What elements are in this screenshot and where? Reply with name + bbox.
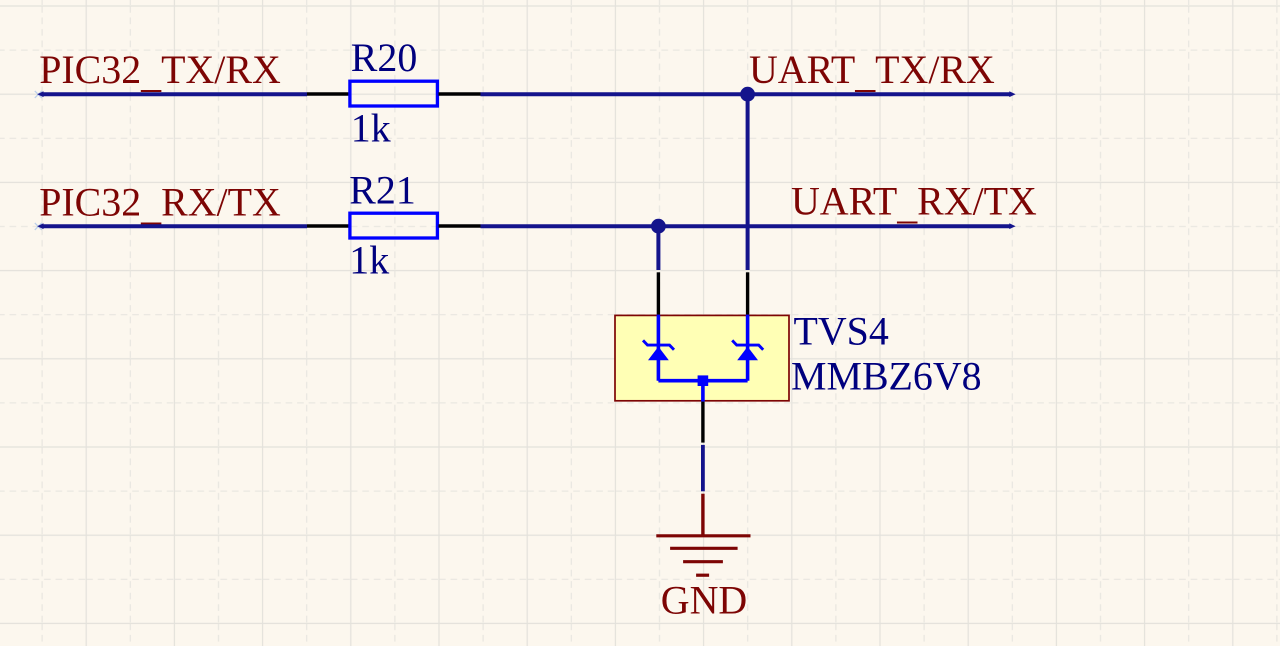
wire vertical from UART_TX/RX junction to TVS4 pin 1 (746, 94, 750, 270)
TVS diode TVS4 body (615, 315, 789, 400)
junction dot at UART_RX/TX (651, 219, 666, 234)
svg-text:UART_RX/TX: UART_RX/TX (791, 179, 1037, 228)
ground GND power port stem (701, 494, 704, 535)
ground bar 4 (696, 574, 709, 577)
resistor R20 (350, 81, 438, 106)
resistor R21 right pin (439, 224, 481, 227)
svg-text:UART_TX/RX: UART_TX/RX (749, 47, 995, 96)
svg-text:MMBZ6V8: MMBZ6V8 (791, 353, 982, 398)
svg-text:R21: R21 (349, 168, 416, 213)
svg-text:GND: GND (661, 578, 747, 623)
wire net UART_TX/RX right segment (481, 91, 1016, 97)
wire to GND (701, 445, 705, 491)
resistor R21 (350, 213, 438, 238)
resistor R20 left pin (307, 92, 349, 96)
resistor R21 left pin (307, 224, 349, 228)
zener diode D-right internal wire (746, 315, 750, 381)
wire net PIC32_RX/TX left segment (37, 223, 307, 229)
ground bar 2 (670, 547, 738, 550)
TVS4 internal pin 2 stub (701, 381, 705, 402)
svg-text:TVS4: TVS4 (794, 309, 889, 354)
wire net UART_RX/TX right segment (481, 223, 1016, 229)
svg-text:R20: R20 (351, 35, 418, 80)
resistor R20 right pin (439, 92, 481, 95)
no-ERC cross at PIC32_TX/RX wire end (35, 91, 42, 98)
ground bar 3 (683, 560, 723, 563)
TVS4 pin 1 (black pin, right vertical) (746, 272, 749, 314)
TVS4 pin 2 (black pin, bottom vertical) (701, 402, 704, 443)
TVS4 internal bottom rail (658, 379, 747, 383)
no-ERC cross at PIC32_RX/TX wire end (35, 223, 42, 230)
zener diode D-left triangle (648, 347, 669, 361)
ground bar 1 (656, 534, 750, 537)
svg-text:PIC32_TX/RX: PIC32_TX/RX (39, 47, 281, 96)
zener diode D-right triangle (737, 347, 758, 361)
zener diode D-left internal wire (657, 315, 661, 381)
zener diode D-right cathode bar with tails (732, 340, 763, 349)
wire net PIC32_TX/RX left segment (37, 91, 307, 97)
zener diode D-left cathode bar with tails (643, 340, 674, 349)
svg-text:PIC32_RX/TX: PIC32_RX/TX (39, 180, 281, 229)
TVS4 pin 3 (black pin, left vertical) (657, 272, 660, 314)
svg-text:1k: 1k (351, 106, 391, 151)
TVS4 internal junction square (698, 375, 709, 386)
svg-text:1k: 1k (349, 237, 389, 282)
junction dot at UART_TX/RX (740, 87, 755, 102)
wire vertical from UART_RX/TX junction to TVS4 pin 3 (656, 226, 660, 270)
